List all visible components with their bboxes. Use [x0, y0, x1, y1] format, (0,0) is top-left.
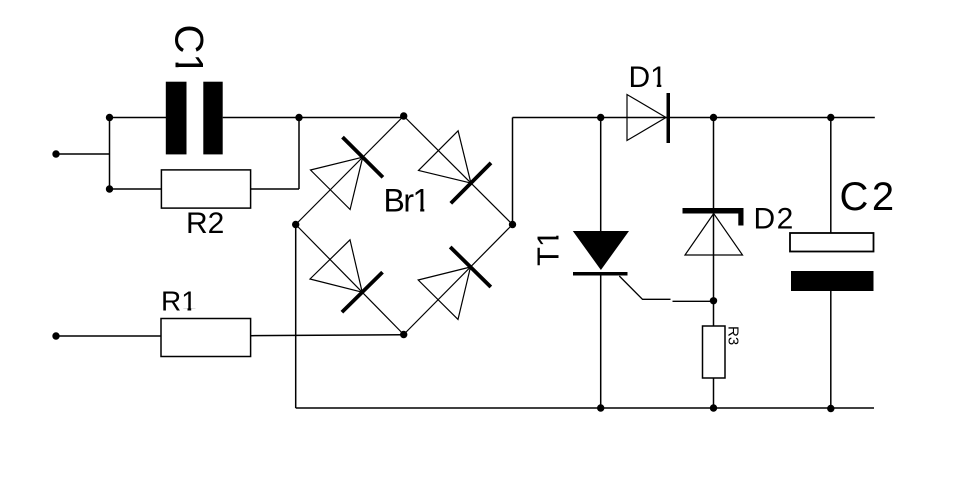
node C1/R2 right junction — [295, 114, 302, 121]
wire C2 bottom — [830, 291, 832, 409]
diode bridge bottom-right — [418, 247, 491, 319]
wire R2 right to riser — [251, 188, 299, 190]
node bridge bottom — [400, 331, 407, 338]
bridge Br1 diamond wires — [296, 116, 513, 335]
wire bridge side bottom-right — [404, 225, 513, 335]
node T1 cathode bus junction — [597, 404, 604, 411]
diode D2 (zener) — [683, 118, 744, 327]
capacitor C1 — [166, 82, 223, 155]
node gate junction — [710, 297, 717, 304]
wire T1 anode — [600, 118, 602, 232]
resistor R2 — [161, 170, 250, 208]
wire input top terminal to split — [56, 153, 110, 155]
svg-text:D1: D1 — [629, 61, 667, 94]
node bridge left — [292, 221, 299, 228]
wire top rail — [513, 117, 875, 119]
diode D1 — [627, 93, 670, 143]
wire D2 branch — [713, 118, 715, 327]
node bridge right — [509, 221, 516, 228]
node C2 bus junction — [827, 405, 834, 412]
wire vertical split left — [109, 118, 111, 190]
wire T1 cathode down — [600, 276, 602, 409]
svg-text:R1: R1 — [161, 286, 197, 317]
resistor R3 — [703, 326, 726, 378]
diode bridge top-left — [311, 137, 383, 209]
thyristor T1 — [573, 118, 714, 409]
node R3 bus junction — [710, 404, 717, 411]
svg-text:R2: R2 — [186, 207, 224, 240]
wire bottom bus — [296, 407, 874, 409]
wire to C1 left plate — [110, 117, 167, 119]
wire C2 top — [830, 118, 832, 234]
node D2 branch junction — [710, 114, 717, 121]
wire bridge right node up — [512, 118, 514, 225]
node input bottom terminal — [52, 332, 59, 339]
wire T1 gate — [619, 276, 670, 299]
svg-text:C2: C2 — [840, 175, 898, 219]
svg-text:C1: C1 — [167, 25, 211, 76]
resistor R1 — [161, 319, 251, 357]
wire riser up to top junction — [298, 118, 300, 190]
node input top terminal — [52, 150, 59, 157]
wire R1 right to bridge bottom node — [251, 334, 404, 337]
wire bridge side left-bottom — [296, 225, 404, 335]
diode bridge bottom-left — [310, 240, 383, 312]
node split bottom — [106, 185, 113, 192]
wire input bottom terminal to R1 — [56, 335, 161, 337]
wire bridge left node down to bottom bus — [295, 225, 297, 409]
node split top — [106, 114, 113, 121]
svg-text:Br1: Br1 — [384, 183, 430, 219]
wire C1 right plate to junction and bridge top — [223, 117, 404, 119]
wire split bottom to R2 — [110, 188, 162, 190]
svg-text:R3: R3 — [725, 326, 742, 345]
node T1 anode junction — [597, 114, 604, 121]
diode bridge top-right — [419, 131, 492, 204]
wire bridge side top-right — [404, 116, 513, 225]
wire bridge side left-top — [296, 116, 404, 225]
capacitor C2 — [790, 118, 874, 409]
node bridge top — [400, 112, 407, 119]
node C2 branch junction — [827, 114, 834, 121]
wire R3 bottom to bus — [713, 378, 715, 408]
svg-text:D2: D2 — [754, 203, 795, 236]
